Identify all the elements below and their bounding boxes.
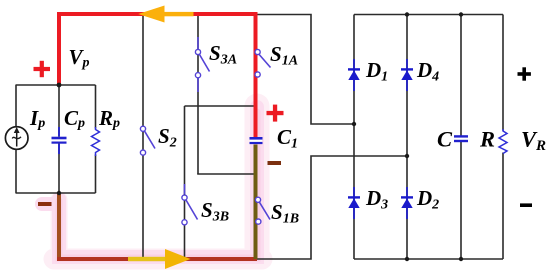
minus sign C1 [268, 161, 282, 165]
node dot bridge input right [405, 154, 409, 158]
wire red Vp lead and top rail to C1 [59, 14, 256, 137]
wire S3A branch [197, 14, 199, 174]
wire bridge right branch D4 D2 [406, 15, 408, 260]
wire bridge left branch D1 D3 [353, 15, 355, 260]
capacitor C1 [250, 137, 263, 143]
wire Cp branch [58, 85, 60, 193]
wire output C branch [460, 15, 462, 260]
minus sign Vp [38, 202, 52, 206]
node dot bridge input left [352, 122, 356, 126]
node dot bridge bottom C [459, 257, 463, 261]
node dot bridge top D4 [405, 12, 409, 16]
switch S1B [255, 197, 270, 224]
switch S3A [195, 37, 209, 92]
diode D4 [401, 59, 413, 91]
wire piezo box top [16, 84, 96, 86]
current source Ip [5, 127, 28, 150]
wire dark red bottom rail [57, 257, 257, 261]
switch S1A [255, 49, 271, 77]
svg-text:C: C [437, 127, 453, 152]
wire brown piezo bottom lead [57, 193, 61, 259]
switch S3B [182, 184, 198, 225]
plus sign C1 [267, 105, 284, 122]
diode D3 [348, 187, 360, 219]
switch S2 [140, 126, 155, 155]
wire S3A to C1 bottom [197, 173, 255, 175]
diode D2 [401, 187, 413, 219]
resistor Rp [92, 129, 99, 155]
node dot piezo bottom [57, 191, 61, 195]
wire bottom link to bridge [256, 156, 408, 259]
capacitor Cp [52, 127, 67, 154]
wire piezo box left branch [15, 85, 17, 193]
wire piezo box bottom [16, 192, 96, 194]
minus sign VR [520, 203, 532, 207]
wire top link to bridge [256, 15, 355, 125]
wire output R branch [502, 15, 504, 260]
highlight glow along C1-bottom current path [54, 106, 262, 259]
wire Rp branch [95, 85, 97, 193]
wire C1 top to S3B [185, 105, 256, 107]
node dot bridge top C [459, 12, 463, 16]
capacitor C output [454, 136, 468, 141]
wire bridge top rail [354, 14, 503, 16]
current arrow bottom (rightward) [128, 249, 191, 269]
wire S2 branch [142, 14, 144, 259]
plus sign VR [518, 67, 531, 80]
resistor R output [500, 131, 507, 153]
node dot bridge bottom D2 [405, 257, 409, 261]
diode D1 [348, 59, 360, 91]
wire S3B branch [184, 106, 186, 259]
wire bridge bottom rail [354, 258, 503, 260]
plus sign Vp [34, 61, 51, 77]
wire olive C1 bottom lead [254, 145, 258, 260]
svg-text:R: R [479, 127, 495, 152]
node dot piezo top [57, 83, 62, 88]
current arrow top (leftward) [138, 6, 193, 23]
